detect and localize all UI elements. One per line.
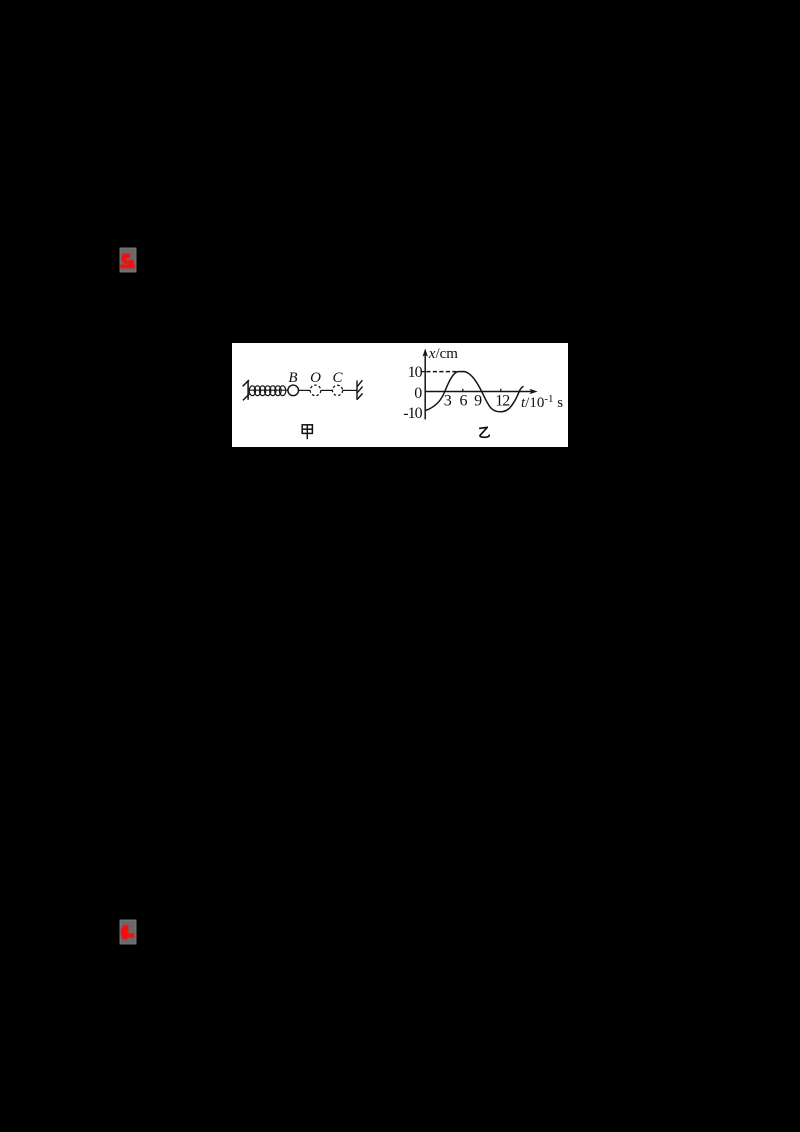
y axis arrowhead (423, 348, 428, 356)
dashed level line at +10 (426, 371, 456, 373)
t axis (425, 391, 533, 393)
tick t=12 (500, 389, 502, 392)
svg-text:-10: -10 (403, 405, 422, 422)
physics figure white panel (232, 343, 568, 447)
red bookmark icon 2 (118, 918, 138, 946)
caption 乙 (drawn) (480, 427, 490, 437)
svg-text:t/10-1 s: t/10-1 s (521, 393, 563, 411)
tick t=6 (462, 389, 464, 392)
ball O dashed (310, 385, 321, 396)
wire C-wall (343, 389, 357, 391)
red bookmark icon 1 (118, 246, 138, 274)
t axis arrowhead (529, 389, 537, 394)
wire B-O (299, 389, 311, 391)
caption 甲 (drawn) (302, 425, 312, 439)
svg-text:12: 12 (495, 393, 510, 410)
svg-text:10: 10 (408, 364, 423, 381)
svg-text:x/cm: x/cm (428, 346, 458, 362)
right wall (357, 380, 363, 400)
svg-text:0: 0 (414, 385, 422, 402)
svg-text:B: B (288, 370, 297, 386)
ball B (288, 385, 299, 396)
left wall (243, 380, 250, 400)
wire O-C (321, 389, 333, 391)
spring (248, 386, 288, 396)
y axis (424, 352, 426, 419)
tick at +10 (422, 371, 425, 373)
svg-text:O: O (310, 370, 321, 386)
svg-text:C: C (332, 370, 343, 386)
displacement curve (425, 372, 523, 412)
svg-text:9: 9 (474, 393, 482, 410)
svg-text:6: 6 (460, 393, 468, 410)
svg-text:3: 3 (444, 393, 452, 410)
ball C dashed (332, 385, 342, 395)
